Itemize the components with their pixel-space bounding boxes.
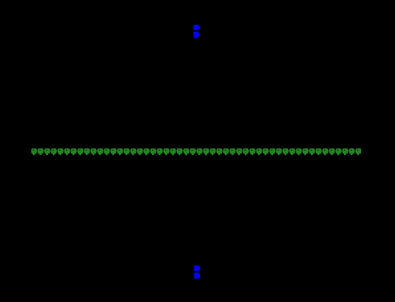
node label BOTTOM (blue glyphs below coil) [194, 266, 200, 280]
node label TOP (blue glyphs above coil) [194, 25, 200, 39]
inductor L1: horizontal 50-turn coil (green loops with bottom wire stubs) [31, 148, 361, 155]
